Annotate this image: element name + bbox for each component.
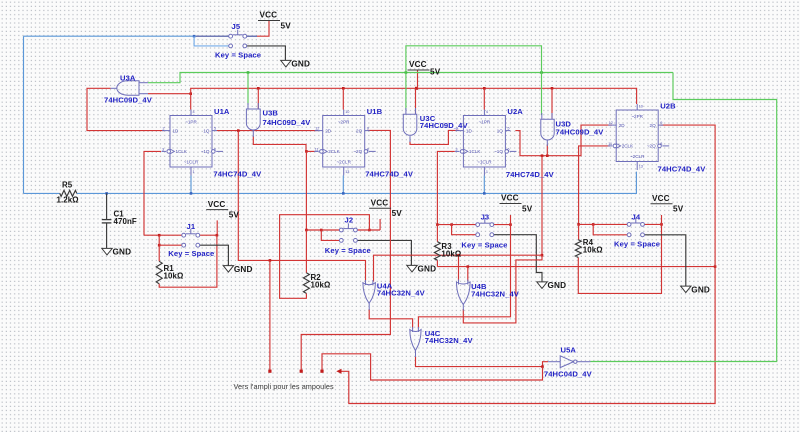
wire U4C output to U5A	[416, 356, 549, 367]
wire J3 VCC stem lower	[510, 215, 512, 225]
node wire end 1	[268, 370, 271, 373]
wire J1 switch to GND	[200, 245, 229, 265]
svg-text:Key = Space: Key = Space	[325, 246, 371, 255]
svg-text:74HC74D_4V: 74HC74D_4V	[506, 170, 555, 179]
svg-text:~1PR: ~1PR	[479, 120, 491, 125]
wire J5 common net horizontal	[24, 35, 229, 37]
svg-text:74HC09D_4V: 74HC09D_4V	[556, 128, 605, 137]
svg-text:5V: 5V	[430, 68, 441, 77]
svg-text:Key = Space: Key = Space	[215, 51, 261, 60]
svg-text:4: 4	[486, 110, 488, 114]
svg-text:74HC74D_4V: 74HC74D_4V	[658, 165, 707, 174]
svg-text:J4: J4	[632, 212, 641, 221]
svg-text:9: 9	[660, 121, 662, 125]
or gate U4C	[410, 327, 474, 357]
svg-text:U2A: U2A	[507, 107, 523, 116]
switch J4	[614, 212, 660, 248]
svg-text:5V: 5V	[522, 204, 533, 213]
wire J1 top row	[144, 234, 217, 236]
svg-text:VCC: VCC	[409, 60, 427, 69]
svg-text:~1CLR: ~1CLR	[184, 160, 199, 165]
svg-text:~1Q: ~1Q	[494, 149, 503, 154]
node J5 branch junction	[193, 35, 196, 38]
svg-text:2: 2	[456, 127, 458, 131]
svg-text:12: 12	[609, 121, 613, 125]
svg-text:11: 11	[315, 147, 319, 151]
svg-text:Key = Space: Key = Space	[168, 249, 214, 258]
ground J3	[537, 281, 566, 290]
svg-text:10: 10	[345, 110, 349, 114]
wire J4 switch to GND	[644, 235, 686, 286]
svg-text:6: 6	[214, 147, 216, 151]
wire J1 VCC stem lower	[216, 220, 218, 235]
svg-text:13: 13	[345, 170, 349, 174]
svg-text:VCC: VCC	[260, 11, 278, 20]
svg-text:GND: GND	[691, 285, 710, 294]
wire net266 U2B 2Q line	[437, 266, 715, 268]
resistor R3	[434, 242, 461, 261]
wire CLR bus (master reset)	[24, 172, 637, 194]
wire U1B CLR drop	[342, 176, 344, 194]
svg-text:GND: GND	[418, 265, 437, 274]
ground J2	[407, 265, 436, 274]
svg-text:2CLK: 2CLK	[622, 144, 634, 149]
svg-text:1: 1	[486, 170, 488, 174]
resistor R2	[303, 273, 330, 294]
wire J2 VCC stem lower	[379, 219, 381, 230]
svg-text:74HC32N_4V: 74HC32N_4V	[377, 289, 426, 298]
svg-text:VCC: VCC	[208, 200, 226, 209]
wire U3B input2 drop	[257, 88, 259, 109]
power VCC J3	[500, 194, 533, 214]
wire U1A 1Q down to U4A	[238, 131, 365, 282]
power VCC J4	[651, 194, 684, 214]
wire U3D input2 drop	[551, 88, 553, 119]
wire green upper loop	[406, 46, 542, 73]
wire R1 bottom loop to VCC	[159, 235, 217, 287]
svg-text:10kΩ: 10kΩ	[441, 249, 461, 258]
svg-text:5: 5	[507, 127, 509, 131]
wire U2A preset drop	[483, 88, 485, 109]
svg-text:1CLK: 1CLK	[469, 149, 481, 154]
svg-text:9: 9	[367, 127, 369, 131]
svg-text:2D: 2D	[619, 123, 626, 128]
inverter U5A	[544, 346, 593, 379]
svg-text:8: 8	[660, 142, 662, 146]
resistor R5	[57, 181, 79, 205]
node green junctions	[247, 71, 543, 74]
flip-flop U1B	[314, 107, 414, 178]
svg-text:J2: J2	[345, 216, 354, 225]
resistor R4	[575, 238, 602, 258]
node N1 junctions	[457, 254, 543, 257]
wire J2 bottom row branch	[321, 230, 340, 240]
svg-text:470nF: 470nF	[114, 217, 137, 226]
wire green right side from U5A	[591, 73, 777, 362]
wire N1 horizontal to U4A input2	[374, 255, 543, 281]
svg-text:10: 10	[639, 105, 643, 109]
svg-text:3: 3	[455, 147, 457, 151]
svg-text:74HC74D_4V: 74HC74D_4V	[365, 169, 414, 178]
text annotation output	[234, 382, 335, 391]
wire U1B 2Q to output tap 2	[301, 130, 390, 371]
svg-text:U2B: U2B	[660, 102, 676, 111]
node wired net junctions	[541, 154, 549, 157]
ground J4	[681, 285, 710, 294]
wire J3 top row	[437, 224, 510, 226]
svg-text:13: 13	[639, 165, 643, 169]
svg-text:~1Q: ~1Q	[201, 149, 210, 154]
wire J5 common net left vertical	[23, 36, 25, 193]
wire U3B output to J2 node	[253, 136, 306, 151]
switch J5	[215, 22, 261, 60]
node U1A 1Q junction	[237, 129, 240, 132]
wire VCC branch to U4C input2	[418, 225, 510, 329]
svg-text:R5: R5	[62, 181, 73, 190]
wire U3B input1 drop	[247, 73, 249, 106]
wire U3D input1 drop	[541, 73, 543, 116]
or gate U4B	[457, 280, 520, 311]
wire J4 bottom row branch	[593, 224, 627, 234]
wire R1 top lead	[158, 245, 160, 261]
wire preset net U3A input2	[148, 93, 191, 95]
svg-text:2: 2	[163, 127, 165, 131]
svg-text:6: 6	[507, 147, 509, 151]
wire U3D output stub join	[546, 145, 548, 156]
ground J5	[281, 60, 310, 69]
svg-text:4: 4	[193, 110, 195, 114]
svg-text:74HC09D_4V: 74HC09D_4V	[263, 118, 312, 127]
node J1 junctions	[158, 234, 218, 247]
power VCC J2	[369, 199, 402, 219]
wire R3 top lead	[436, 225, 438, 242]
svg-text:5V: 5V	[229, 210, 240, 219]
svg-text:5V: 5V	[673, 205, 684, 214]
wire U4B input2 drop	[467, 267, 469, 281]
or gate U4A	[363, 280, 426, 310]
svg-text:2Q: 2Q	[650, 123, 657, 128]
node U1B CLK junction	[305, 150, 308, 153]
node bus junctions	[105, 192, 485, 195]
svg-text:J1: J1	[187, 222, 196, 231]
wire R2 bottom loop to VCC	[280, 215, 370, 299]
wire R4 top lead	[578, 224, 580, 239]
and gate U3C	[403, 108, 468, 142]
wire U1A 1CLK to J1 node	[144, 151, 161, 235]
svg-text:~2CLR: ~2CLR	[630, 154, 645, 159]
and gate U3B	[246, 103, 311, 137]
wire to U1B 2CLK	[306, 150, 314, 152]
svg-text:VCC: VCC	[501, 194, 519, 203]
node U4C output junction	[541, 365, 544, 368]
wire U1B preset drop	[342, 88, 344, 109]
node J4 junctions	[577, 223, 663, 226]
wire J3 bottom row branch	[452, 225, 476, 235]
wire R4 bottom loop to VCC	[578, 224, 661, 293]
node wire end 2	[300, 370, 303, 373]
wire R3 bottom to net266	[436, 260, 438, 266]
svg-text:74HC09D_4V: 74HC09D_4V	[104, 95, 153, 104]
wire U3C input1 drop	[405, 73, 407, 111]
svg-text:U3A: U3A	[120, 73, 136, 82]
switch J3	[461, 212, 507, 249]
svg-text:1Q: 1Q	[497, 128, 504, 133]
svg-text:74HC74D_4V: 74HC74D_4V	[213, 169, 262, 178]
svg-text:1Q: 1Q	[203, 128, 210, 133]
svg-text:Vers l'ampli pour les ampoules: Vers l'ampli pour les ampoules	[234, 382, 335, 391]
node preset bus junctions	[257, 87, 553, 90]
svg-text:74HC32N_4V: 74HC32N_4V	[471, 289, 520, 298]
wire U1A preset drop	[190, 94, 192, 110]
wire U3A output to U1A 1D	[87, 88, 164, 130]
svg-text:74HC04D_4V: 74HC04D_4V	[544, 370, 593, 379]
wire J2 node vertical	[305, 151, 307, 230]
svg-text:GND: GND	[113, 248, 132, 257]
svg-text:1: 1	[193, 170, 195, 174]
wire U4C output tap	[322, 354, 543, 380]
svg-text:VCC: VCC	[371, 199, 389, 208]
wire U4A output to U4C input1	[369, 309, 412, 329]
svg-text:1D: 1D	[466, 128, 473, 133]
svg-text:~2CLR: ~2CLR	[336, 160, 351, 165]
wire J4 top row	[579, 223, 662, 225]
svg-text:VCC: VCC	[652, 194, 670, 203]
resistor R1	[156, 261, 183, 284]
svg-text:1D: 1D	[173, 128, 180, 133]
svg-text:GND: GND	[548, 281, 567, 290]
node output tap junction	[269, 259, 272, 262]
wire J2 top row	[306, 229, 380, 231]
svg-text:Key = Space: Key = Space	[614, 239, 660, 248]
node J3 junctions	[436, 223, 512, 226]
svg-text:J3: J3	[481, 212, 490, 221]
wire J5 to VCC	[247, 21, 269, 37]
switch J2	[325, 216, 371, 256]
wire J3 switch to GND	[494, 235, 542, 282]
wire mid VCC stem and U3C input2 drop	[416, 70, 418, 114]
svg-text:11: 11	[608, 142, 612, 146]
svg-text:74HC09D_4V: 74HC09D_4V	[420, 121, 469, 130]
svg-text:12: 12	[315, 127, 319, 131]
wire U3C output to U2A 2D	[410, 130, 459, 144]
wire U1A CLR drop	[190, 176, 192, 194]
svg-text:10kΩ: 10kΩ	[311, 280, 331, 289]
svg-text:8: 8	[367, 147, 369, 151]
flip-flop U2A	[455, 107, 555, 179]
svg-text:2Q: 2Q	[356, 128, 363, 133]
wire J5 lower throw branch	[194, 36, 229, 46]
svg-text:1CLK: 1CLK	[176, 149, 188, 154]
wire N1 tie to U4B output	[463, 255, 542, 323]
svg-text:U1A: U1A	[214, 107, 230, 116]
svg-text:Key = Space: Key = Space	[461, 240, 507, 249]
and gate U3A	[104, 73, 153, 104]
flip-flop U2B	[608, 102, 706, 174]
node preset junction at U1A	[189, 92, 192, 95]
and gate U3D	[541, 113, 604, 146]
switch J1	[168, 222, 214, 258]
svg-text:~1PR: ~1PR	[185, 120, 197, 125]
svg-text:J5: J5	[232, 22, 241, 31]
ground C1	[102, 248, 131, 257]
power VCC J1	[206, 200, 239, 220]
wire U1A 1Q to U1B 2D	[217, 130, 319, 132]
wire U2A CLR drop	[483, 176, 485, 194]
node net266 junctions	[467, 265, 717, 268]
svg-text:10kΩ: 10kΩ	[583, 245, 603, 254]
power VCC mid	[408, 60, 441, 76]
svg-text:~2Q: ~2Q	[647, 144, 656, 149]
wire J5 to GND	[247, 46, 286, 61]
wire J4 VCC stem lower	[661, 215, 663, 224]
wire green feedback U3A input	[148, 73, 673, 83]
svg-text:U3B: U3B	[263, 109, 279, 118]
flip-flop U1A	[162, 107, 263, 178]
wire wired net down branch	[541, 156, 543, 256]
svg-text:~1CLR: ~1CLR	[477, 160, 492, 165]
wire J2 switch to GND	[357, 240, 412, 265]
svg-text:1.2kΩ: 1.2kΩ	[57, 196, 79, 205]
wire U2B 2Q long output	[340, 125, 715, 403]
wire U2A 2CLK to J3 node	[437, 151, 454, 224]
svg-text:~2PR: ~2PR	[631, 114, 643, 119]
node J2 junctions	[305, 229, 371, 232]
svg-text:~2PR: ~2PR	[338, 120, 350, 125]
svg-text:5: 5	[214, 127, 216, 131]
wire U4B input1 drop	[458, 255, 460, 281]
svg-text:U5A: U5A	[561, 346, 577, 355]
svg-text:~2Q: ~2Q	[353, 149, 362, 154]
power VCC J5	[258, 11, 291, 31]
ground J1	[223, 265, 252, 274]
wire U2B 2CLK to J4 node	[579, 146, 610, 225]
svg-text:2D: 2D	[325, 128, 332, 133]
svg-text:74HC32N_4V: 74HC32N_4V	[425, 336, 474, 345]
capacitor C1	[102, 193, 137, 248]
svg-text:5V: 5V	[392, 209, 403, 218]
wire U2A 1Q wired net	[515, 125, 612, 156]
wire output tap 1	[269, 260, 271, 371]
wire J1 bottom row branch	[159, 235, 182, 245]
wire R2 top lead	[305, 230, 307, 273]
svg-text:3: 3	[162, 147, 164, 151]
node wire end 3	[320, 370, 323, 373]
svg-text:10kΩ: 10kΩ	[164, 272, 184, 281]
svg-text:5V: 5V	[281, 21, 292, 30]
svg-text:GND: GND	[291, 60, 310, 69]
svg-text:U1B: U1B	[367, 107, 383, 116]
svg-text:GND: GND	[234, 265, 253, 274]
wire preset bus	[191, 88, 637, 104]
arrow output to amplifier	[336, 369, 341, 374]
svg-text:2CLK: 2CLK	[328, 149, 340, 154]
